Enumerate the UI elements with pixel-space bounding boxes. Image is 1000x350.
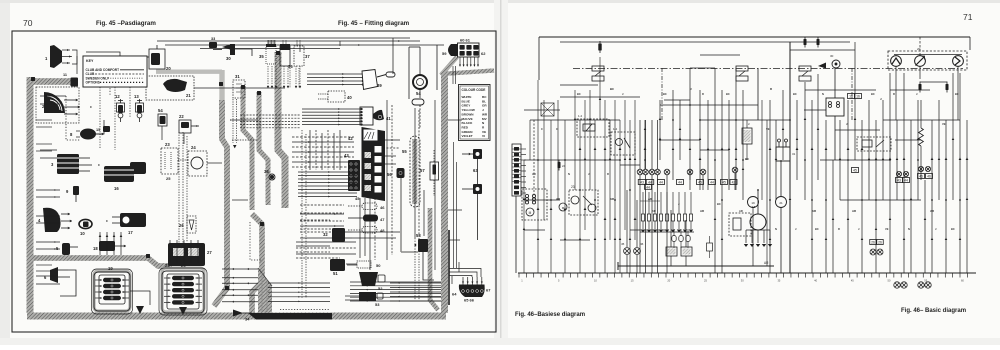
svg-text:AR: AR <box>556 197 560 201</box>
extra lamps mid <box>687 169 693 175</box>
mid verticals <box>644 120 646 169</box>
fuse F2 <box>804 39 807 45</box>
arrow ticks on verticals <box>579 147 582 150</box>
second top bus segment <box>560 41 850 43</box>
fuse F1 <box>598 44 601 51</box>
svg-text:36: 36 <box>288 64 293 69</box>
fuse box 28 29 <box>159 268 207 315</box>
loom staircase <box>258 268 272 313</box>
fuse 24 left cluster <box>558 162 561 168</box>
wire loom bundle to dash A <box>259 92 268 205</box>
lamp pairs bottom right2 <box>870 249 876 255</box>
svg-text:M: M <box>529 211 532 215</box>
svg-text:33: 33 <box>211 37 215 41</box>
value boxes right <box>896 178 903 183</box>
resistor small 9 <box>707 243 713 251</box>
lamp single <box>664 169 670 175</box>
svg-text:50: 50 <box>376 263 381 268</box>
svg-text:45: 45 <box>355 196 360 201</box>
svg-text:BC: BC <box>871 92 875 96</box>
sensor 26 <box>187 216 196 233</box>
top supply bus <box>539 36 970 38</box>
loom entry blobs <box>219 82 223 86</box>
svg-text:67: 67 <box>486 288 491 293</box>
svg-text:N: N <box>568 172 570 176</box>
ladder wires bottom extra <box>268 282 330 284</box>
fuses under headlamp box <box>920 81 947 83</box>
bottom right risers <box>451 276 453 284</box>
verticals far right <box>875 120 877 273</box>
svg-text:17: 17 <box>128 230 133 235</box>
svg-text:32: 32 <box>323 232 328 237</box>
coil box left dashed <box>522 189 547 220</box>
svg-text:31: 31 <box>792 152 796 156</box>
component 63b <box>473 184 482 194</box>
right column vertical pair <box>453 142 455 268</box>
svg-text:43: 43 <box>640 181 644 185</box>
earth bus ticks <box>518 273 520 278</box>
svg-text:VE: VE <box>766 127 770 131</box>
svg-text:19: 19 <box>751 201 755 205</box>
dotted verticals right side long <box>414 238 416 300</box>
svg-text:12: 12 <box>115 94 120 99</box>
connector 34 bottom <box>233 310 243 317</box>
wires coil 32 <box>352 231 400 233</box>
svg-text:44: 44 <box>648 181 652 185</box>
svg-text:44: 44 <box>904 179 908 183</box>
washer bottle 37 <box>294 46 304 66</box>
svg-text:27: 27 <box>207 250 212 255</box>
dash-dot ignition bus <box>573 68 963 70</box>
relay 58 <box>418 239 428 252</box>
left strip rungs <box>513 148 521 150</box>
wire loom right top horizontal <box>441 71 494 75</box>
lamp pairs bottom right <box>894 282 900 288</box>
junction dots right page <box>537 159 539 161</box>
connector 48 <box>362 227 377 234</box>
svg-text:C: C <box>556 127 558 131</box>
relay 22 <box>179 120 191 133</box>
headlamp symbol 3 <box>953 56 964 67</box>
svg-text:44: 44 <box>659 181 663 185</box>
svg-text:AR: AR <box>532 172 536 176</box>
connector 10 <box>79 219 92 228</box>
svg-text:16: 16 <box>856 95 860 99</box>
wire loom upper middle vertical <box>243 86 252 210</box>
svg-text:Fig. 46–Basiese diagram: Fig. 46–Basiese diagram <box>515 312 585 318</box>
svg-text:60 61: 60 61 <box>460 38 471 43</box>
relay dashed box C <box>611 132 635 155</box>
svg-text:21: 21 <box>186 93 191 98</box>
left connector strip <box>512 144 521 196</box>
svg-text:29: 29 <box>181 263 186 268</box>
wire loom right vertical inner <box>430 208 438 310</box>
wire fan to cluster <box>298 171 357 173</box>
svg-text:13: 13 <box>134 94 139 99</box>
svg-text:R: R <box>770 87 772 91</box>
battery 31 <box>776 147 790 161</box>
svg-text:R: R <box>607 172 609 176</box>
svg-text:AR: AR <box>652 209 656 213</box>
svg-text:KEY: KEY <box>86 59 94 63</box>
svg-text:R: R <box>893 92 895 96</box>
svg-text:BC: BC <box>955 92 959 96</box>
left strip stubs <box>521 148 526 150</box>
svg-text:10: 10 <box>80 231 85 236</box>
extra arrows left page <box>84 59 86 61</box>
connector block 64-67 <box>459 285 485 298</box>
svg-text:57: 57 <box>420 168 425 173</box>
svg-text:VE: VE <box>885 227 889 231</box>
svg-text:AR: AR <box>852 209 856 213</box>
connector 50 <box>357 261 371 268</box>
relay pair B <box>799 66 811 71</box>
capsule symbols row <box>672 236 676 242</box>
steering lock 21 <box>163 79 187 92</box>
svg-text:31: 31 <box>235 74 240 79</box>
wire drop right top <box>436 45 438 90</box>
wire 21 to right <box>194 87 285 89</box>
svg-text:24: 24 <box>562 164 566 168</box>
wires under cluster to 51 <box>347 264 357 266</box>
lamp row mid-left <box>637 169 643 175</box>
wire loom diagonal to connector 59 <box>441 57 457 75</box>
indicator stalk 39 <box>307 73 362 75</box>
svg-text:1.4: 1.4 <box>613 127 618 131</box>
bottom earth bus <box>518 272 976 274</box>
heavy wire right inner <box>448 230 450 305</box>
hlamp box drops <box>895 67 897 121</box>
svg-text:15: 15 <box>96 128 100 132</box>
top right drop x393 <box>392 38 394 74</box>
more tick arrows right page <box>523 228 526 230</box>
svg-text:53: 53 <box>375 302 380 307</box>
wire loom bundle to dash B <box>278 52 285 208</box>
right side vertical wires <box>386 100 388 260</box>
svg-text:20: 20 <box>166 66 171 71</box>
wire 30 to border <box>235 49 252 56</box>
svg-text:37: 37 <box>305 54 310 59</box>
lamp pairs right mid <box>896 171 901 176</box>
blower motor 52 <box>359 272 378 286</box>
relay dashed box B <box>577 119 609 137</box>
junction link row <box>640 200 660 202</box>
component 38 <box>269 174 275 180</box>
wires 23-24 to loom <box>178 159 188 161</box>
horn 8 <box>80 129 96 140</box>
instrument cluster 42 43 <box>362 127 386 201</box>
fuel gauge 54b <box>413 75 427 89</box>
svg-text:55: 55 <box>402 149 407 154</box>
component 63 <box>473 149 482 159</box>
svg-text:70: 70 <box>23 18 33 28</box>
svg-text:BC: BC <box>717 202 721 206</box>
value boxes top right <box>848 94 855 99</box>
wires fusebox19 to loom <box>130 291 150 305</box>
svg-text:65 66: 65 66 <box>464 298 475 303</box>
left border stub wires extra <box>36 119 52 121</box>
svg-text:AR: AR <box>764 261 769 265</box>
connector 12 <box>120 99 122 103</box>
top bus left drop <box>538 37 540 80</box>
connector 46 <box>362 203 377 210</box>
svg-text:45: 45 <box>621 242 625 246</box>
key legend box redraw on top <box>83 56 147 87</box>
svg-text:VI: VI <box>482 134 485 138</box>
lamp 56 <box>397 168 405 178</box>
svg-text:24: 24 <box>191 145 196 150</box>
svg-text:19: 19 <box>108 266 113 271</box>
svg-text:23: 23 <box>165 142 170 147</box>
black band bottom center <box>248 313 332 320</box>
wires 63 to loom <box>448 119 462 121</box>
long fan lower right <box>350 281 441 283</box>
svg-text:BC: BC <box>663 92 667 96</box>
component 33 <box>209 42 217 48</box>
svg-text:26: 26 <box>179 223 184 228</box>
heavy feed line battery <box>789 42 791 273</box>
relay pair A <box>592 66 604 71</box>
component 15 <box>103 126 110 132</box>
wire fan upper <box>240 114 300 116</box>
starter motor 16 <box>104 166 134 182</box>
svg-text:21: 21 <box>779 201 783 205</box>
fuse F3 <box>817 39 820 45</box>
svg-text:AR: AR <box>610 197 614 201</box>
top bus right drop <box>969 37 971 50</box>
thin verticals right of 59 <box>452 66 454 84</box>
headlamp 2 <box>44 92 65 113</box>
wires between looms <box>232 119 258 121</box>
alternator circle <box>748 197 759 208</box>
headlamp symbol 2 <box>915 56 926 67</box>
wire loom center vertical main <box>214 100 227 306</box>
svg-text:N: N <box>822 92 824 96</box>
wire 58 area <box>423 262 434 280</box>
regulator 3 <box>57 154 79 174</box>
wires column left <box>36 189 60 191</box>
svg-text:30: 30 <box>226 56 231 61</box>
svg-text:59: 59 <box>442 51 447 56</box>
bottle drop dashed wires <box>267 66 269 88</box>
bracket wires 64-67 <box>449 269 481 278</box>
svg-text:47: 47 <box>380 217 385 222</box>
resistor heater <box>919 128 924 146</box>
colour code box <box>459 85 491 141</box>
washer bottle 36 <box>280 46 290 66</box>
regulator relay dashed 21 23 <box>569 190 598 215</box>
svg-text:BC: BC <box>610 87 614 91</box>
component 6 <box>50 267 58 283</box>
svg-text:54: 54 <box>158 108 163 113</box>
svg-text:Fig. 46– Basic diagram: Fig. 46– Basic diagram <box>901 308 966 314</box>
svg-text:44: 44 <box>678 181 682 185</box>
svg-text:44: 44 <box>646 185 650 189</box>
horizontal runs between bundles <box>292 136 354 138</box>
ladder wires bottom center <box>222 268 258 270</box>
svg-text:16: 16 <box>114 186 119 191</box>
svg-text:1.2: 1.2 <box>578 114 583 118</box>
dotted row above black band <box>280 309 330 311</box>
svg-text:N: N <box>908 227 910 231</box>
switch panel 41 <box>360 107 373 125</box>
svg-text:22: 22 <box>179 114 184 119</box>
vertical dashdot segments <box>661 68 663 120</box>
svg-text:11: 11 <box>63 73 67 77</box>
svg-text:54: 54 <box>416 91 421 96</box>
svg-text:51: 51 <box>333 271 338 276</box>
svg-text:VE: VE <box>942 122 946 126</box>
svg-text:62: 62 <box>481 51 486 56</box>
svg-text:25: 25 <box>166 176 171 181</box>
key legend box <box>83 56 147 87</box>
svg-text:43: 43 <box>897 179 901 183</box>
svg-text:R: R <box>838 227 840 231</box>
svg-text:28: 28 <box>165 263 170 268</box>
starter motor circle <box>776 197 787 208</box>
grey heavy wire 56-58 <box>400 178 402 252</box>
wire loom border bottom <box>27 313 446 320</box>
relay 51 <box>330 259 345 271</box>
extra dashed rows left page lower <box>300 231 344 233</box>
horn symbol <box>818 63 826 69</box>
wire loom fusebox2829 outline <box>162 268 204 312</box>
svg-text:18: 18 <box>93 246 98 251</box>
dashed relay 52 <box>857 137 891 151</box>
switch 54a <box>158 114 167 126</box>
wires headlight area <box>86 52 120 60</box>
resistor block 49 <box>666 247 677 256</box>
washer bottle 35 <box>266 46 276 64</box>
ignition coil 42 <box>826 98 844 116</box>
dashed option wires <box>66 96 80 140</box>
top wire run <box>165 44 444 46</box>
svg-text:71: 71 <box>963 12 973 22</box>
wires top bottles <box>268 40 270 46</box>
headlamp box dashed <box>888 51 967 70</box>
motor 24 <box>188 151 207 176</box>
svg-text:40: 40 <box>347 95 352 100</box>
lamps 45 46 <box>624 248 631 255</box>
misc vertical wires center <box>309 130 311 170</box>
left area horizontal stubs <box>40 95 66 97</box>
connector 47 <box>363 215 378 222</box>
motor circle left cluster <box>559 203 567 211</box>
svg-text:45: 45 <box>722 181 726 185</box>
connector comb 43 <box>348 160 360 191</box>
sub earth bus AR <box>618 265 774 267</box>
wire loom ignition horizontal solid <box>156 69 222 73</box>
svg-text:AR: AR <box>739 209 743 213</box>
svg-text:56: 56 <box>387 172 392 177</box>
fusebox19 feed wires up <box>99 232 101 255</box>
svg-text:16: 16 <box>849 95 853 99</box>
svg-text:45: 45 <box>853 169 857 173</box>
wires left cluster dashes <box>533 120 535 200</box>
sensor 31 <box>233 80 245 98</box>
wire fan bottom right <box>390 282 441 284</box>
connector 13 <box>139 99 141 103</box>
svg-text:COLOUR CODE: COLOUR CODE <box>462 88 486 92</box>
wire loom border left <box>27 77 34 313</box>
ignition distributor <box>729 213 751 236</box>
loom merge triangles <box>136 306 144 314</box>
svg-text:46: 46 <box>927 175 931 179</box>
wire loom center vertical solid part <box>219 70 224 101</box>
cluster panel drop wires <box>359 198 361 258</box>
headlamp 1 <box>50 45 62 68</box>
wash wipe cluster verticals <box>769 100 771 273</box>
connector 59-62 block <box>448 44 458 56</box>
svg-text:39: 39 <box>377 83 382 88</box>
dashed bundle x180 <box>178 132 180 246</box>
wire 54b capsule drop <box>419 89 421 98</box>
svg-text:30: 30 <box>830 54 834 58</box>
svg-text:46: 46 <box>919 175 923 179</box>
dashed harness 55 <box>410 136 420 207</box>
svg-text:34: 34 <box>245 317 250 322</box>
ignition switch 20 <box>149 49 165 69</box>
svg-text:26: 26 <box>871 241 875 245</box>
sensor grid small <box>642 192 644 214</box>
wires mid right <box>300 204 344 206</box>
wire loom top-left horizontal <box>27 78 71 85</box>
svg-text:35: 35 <box>259 54 264 59</box>
flasher 23 dashed <box>161 148 178 174</box>
extra verticals 745-790 <box>761 100 763 200</box>
svg-text:BC: BC <box>951 227 955 231</box>
svg-text:23: 23 <box>571 185 575 189</box>
left page outer frame <box>12 31 496 332</box>
svg-text:Fig. 45 – Fitting diagram: Fig. 45 – Fitting diagram <box>338 20 410 27</box>
svg-text:BC: BC <box>815 227 819 231</box>
relay pair C <box>736 66 748 71</box>
wire runs mid lower <box>296 241 356 243</box>
wire 63 column <box>477 159 479 184</box>
svg-text:AR: AR <box>648 197 652 201</box>
wire loom border right <box>441 74 448 313</box>
svg-text:38: 38 <box>264 169 269 174</box>
svg-text:AR: AR <box>812 209 816 213</box>
key box dotted drops <box>99 87 101 148</box>
svg-text:C: C <box>541 127 543 131</box>
connector 40 <box>328 91 345 102</box>
svg-text:46: 46 <box>380 205 385 210</box>
loom cap 11 <box>71 78 79 87</box>
dynamo 17 <box>120 213 146 227</box>
ignition coil 32 <box>332 228 345 242</box>
svg-text:64: 64 <box>452 292 457 297</box>
svg-text:VIOLET: VIOLET <box>462 134 473 138</box>
headlamp bus in box <box>894 54 962 56</box>
wires right of panel <box>383 139 400 141</box>
svg-text:N: N <box>775 227 777 231</box>
value boxes row1b <box>645 184 652 189</box>
wire loom lower center <box>252 214 262 313</box>
component 18 <box>99 241 115 251</box>
svg-text:46: 46 <box>640 242 644 246</box>
fuse box 19 <box>92 269 133 314</box>
svg-text:26: 26 <box>878 241 882 245</box>
wires lower mid horizontals <box>300 213 344 215</box>
headlamp 4 <box>43 208 61 232</box>
verticals right-mid <box>804 82 806 200</box>
headlamp symbol 1 <box>891 56 902 67</box>
svg-text:Fig. 45 –Pasdiagram: Fig. 45 –Pasdiagram <box>96 20 156 27</box>
fusebox2829 feed wires up <box>169 240 171 263</box>
extra horizontals right page <box>790 49 855 51</box>
value boxes row1 <box>638 180 646 185</box>
